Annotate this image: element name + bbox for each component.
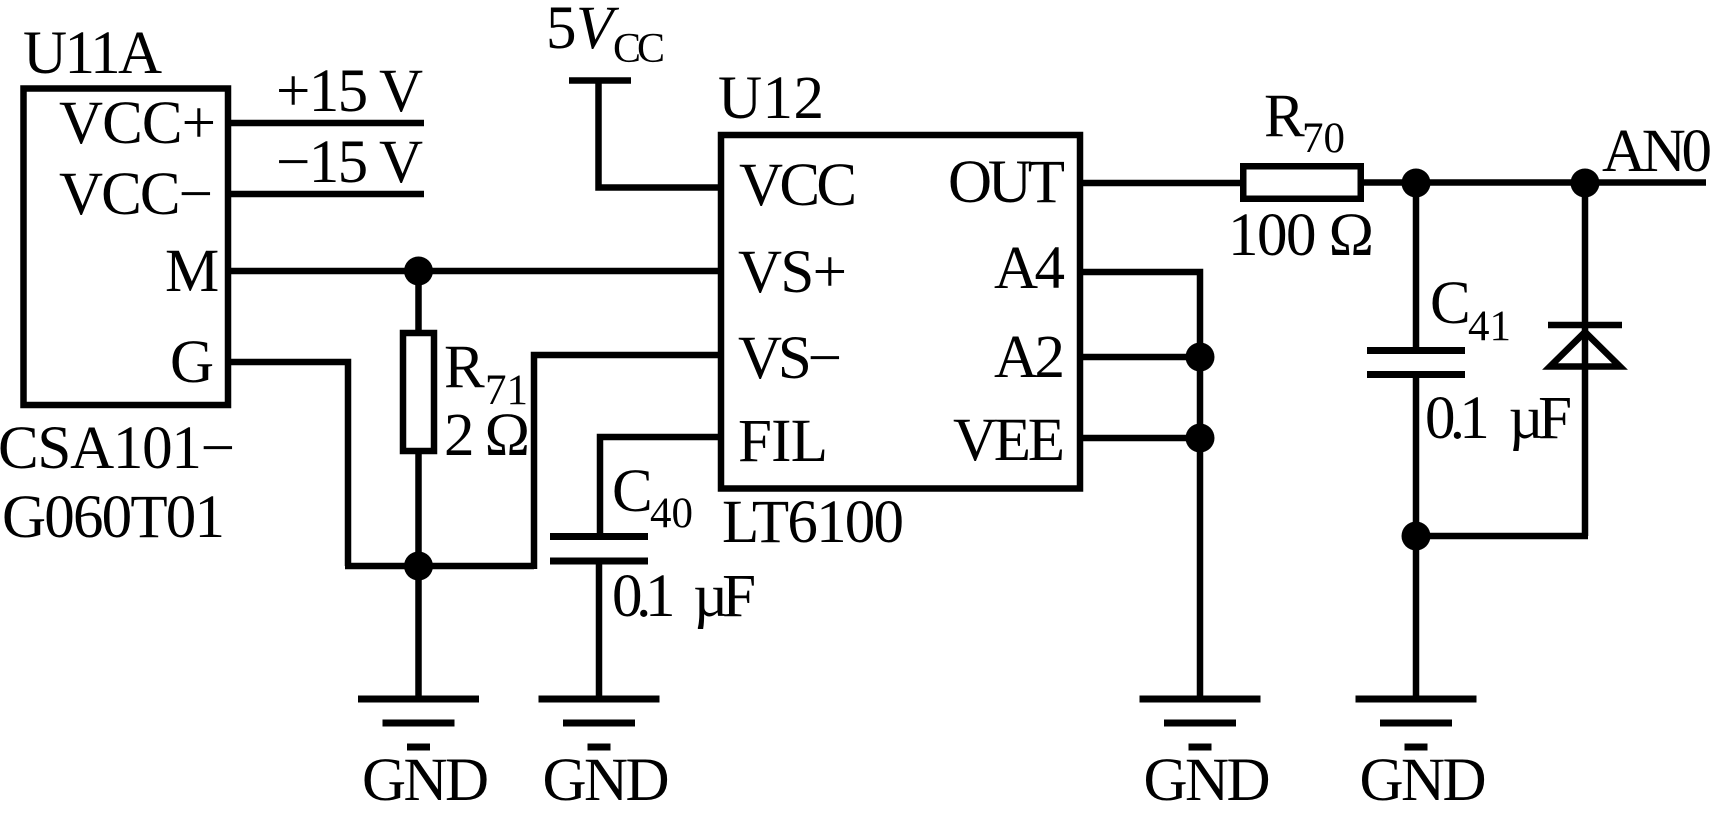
svg-text:R: R [444,334,485,401]
svg-text:C: C [1430,270,1471,337]
ground GND 1 [358,699,489,814]
part number CSA101-G060T01 [0,415,235,551]
capacitor C40 [550,537,648,697]
wire G pin down [228,362,348,566]
junction node A2 [1186,343,1215,372]
junction node C41 top [1402,169,1431,198]
wire VEE pin [1080,435,1200,442]
wire R71 bottom to GND [415,566,422,696]
resistor R71 [403,271,434,566]
wire VCC- pin to -15V rail [228,191,424,198]
svg-text:CC: CC [613,26,665,72]
svg-text:2 Ω: 2 Ω [444,402,530,469]
wire R70 to AN0 [1361,179,1706,186]
junction node AN0 / diode [1571,169,1600,198]
svg-text:GND: GND [1360,747,1487,814]
svg-text:VCC−: VCC− [59,161,213,228]
svg-text:A2: A2 [994,324,1065,391]
svg-text:OUT: OUT [948,149,1065,216]
wire VS- riser to VS- pin [534,355,721,569]
svg-text:U11A: U11A [23,20,162,87]
svg-text:0.1 µF: 0.1 µF [612,563,756,630]
svg-text:LT6100: LT6100 [722,489,904,556]
junction node R71 bottom / GND [404,552,433,581]
wire diode anode to C41 bottom [1416,533,1588,540]
capacitor C41 [1367,183,1465,696]
junction node C41 bottom / diode return [1402,522,1431,551]
label C40 [612,458,693,537]
label R71 [444,334,528,414]
svg-text:U12: U12 [718,65,824,132]
svg-text:G060T01: G060T01 [2,484,225,551]
wire A4 pin down to GND [1080,272,1200,696]
label C41 [1430,270,1511,350]
resistor R70 [1243,166,1361,199]
wire VCC+ pin to +15V rail [228,120,424,127]
svg-text:FIL: FIL [738,408,828,475]
power symbol 5VCC [569,81,721,188]
svg-text:CSA101−: CSA101− [0,415,235,482]
svg-text:VEE: VEE [953,407,1065,474]
svg-text:5: 5 [546,0,577,62]
junction node M / R71 top [404,257,433,286]
IC U11A box [24,89,229,406]
svg-text:C: C [612,458,653,525]
svg-text:100 Ω: 100 Ω [1228,202,1374,269]
svg-text:−15 V: −15 V [276,129,423,196]
wire FIL pin to C40 [600,437,721,533]
svg-text:VS+: VS+ [738,239,847,306]
svg-text:40: 40 [650,490,693,537]
svg-text:GND: GND [362,747,489,814]
svg-text:GND: GND [543,747,670,814]
svg-text:AN0: AN0 [1602,118,1712,185]
svg-text:41: 41 [1468,303,1511,350]
ground GND 4 [1356,699,1487,814]
wire M pin to VS+ pin [228,268,721,275]
svg-text:+15 V: +15 V [276,58,423,125]
svg-text:VS−: VS− [738,325,842,392]
svg-text:M: M [165,238,219,305]
svg-text:A4: A4 [994,235,1065,302]
svg-text:VCC: VCC [739,152,857,219]
label R70 [1264,83,1345,162]
diode D (protection) [1548,183,1622,536]
ground GND 3 [1140,699,1271,814]
junction node VEE [1186,424,1215,453]
svg-text:0.1 µF: 0.1 µF [1425,385,1572,452]
label 5VCC [546,0,665,72]
svg-text:G: G [170,329,214,396]
svg-text:GND: GND [1144,747,1271,814]
svg-text:R: R [1264,83,1305,150]
svg-text:70: 70 [1302,115,1345,162]
svg-text:VCC+: VCC+ [59,90,216,157]
wire OUT pin to R70 [1080,180,1243,187]
wire A2 pin [1080,354,1200,361]
ground GND 2 [539,699,670,814]
wire bottom horizontal to VS- riser [345,563,534,570]
IC U12 box [721,135,1080,489]
